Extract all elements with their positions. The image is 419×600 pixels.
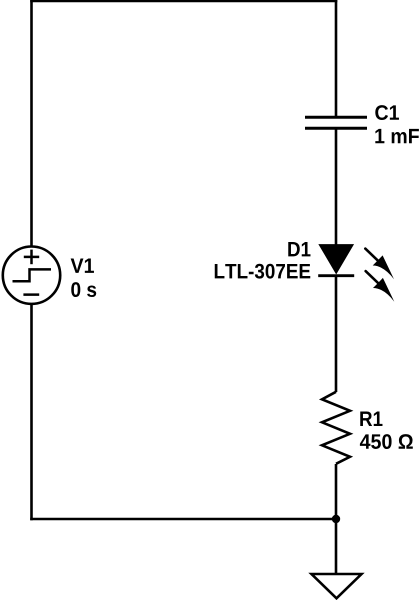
wire LED to resistor: [335, 276, 338, 392]
capacitor C1: [305, 117, 367, 128]
wire capacitor to LED: [335, 129, 338, 246]
wire node to ground: [335, 519, 338, 574]
label 450 ohm: [360, 434, 413, 449]
label R1: [360, 412, 382, 426]
wire resistor to node: [335, 464, 338, 519]
label D1: [288, 242, 310, 256]
label 1 mF: [375, 129, 419, 143]
node junction dot: [332, 515, 340, 523]
wire left rail upper: [30, 0, 33, 247]
LED light arrow 2: [366, 271, 395, 302]
ground: [312, 574, 362, 598]
label V1: [71, 258, 94, 272]
resistor R1: [322, 392, 350, 464]
wire right rail top to capacitor: [335, 0, 338, 117]
label LTL-307EE: [215, 264, 311, 279]
label 0 s: [71, 282, 96, 297]
label C1: [375, 105, 399, 120]
LED D1: [318, 245, 354, 276]
wire bottom rail: [30, 518, 336, 521]
voltage source V1: [3, 247, 60, 304]
LED light arrow 1: [365, 249, 394, 280]
wire left rail lower: [30, 304, 33, 520]
wire top rail: [30, 0, 337, 2]
